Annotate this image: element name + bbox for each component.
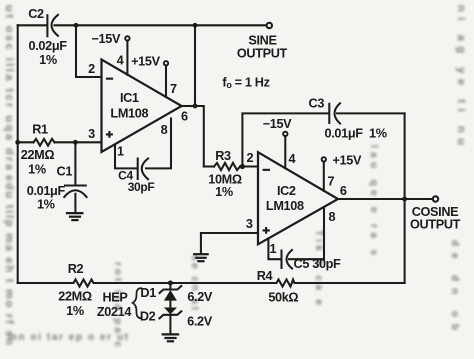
diode D2 zener (160, 308, 182, 334)
wire C4 to pin8 IC1 (146, 118, 171, 168)
svg-text:LM108: LM108 (266, 199, 304, 213)
terminal -15V IC1 (125, 36, 129, 40)
wire pin1 IC2 to C5 (268, 239, 280, 260)
resistor R3 (214, 163, 240, 170)
svg-text:HEP: HEP (102, 291, 128, 305)
wire bottom rail mid (95, 282, 275, 284)
wire R3 to pin2 IC2 (240, 165, 258, 167)
wire C3 to right vertical (337, 112, 405, 114)
svg-text:R1: R1 (32, 123, 48, 137)
svg-text:6.2V: 6.2V (187, 290, 213, 304)
svg-text:1%: 1% (39, 53, 57, 67)
node junction C3 bottom (240, 164, 245, 169)
wire C3 rail (242, 113, 328, 166)
svg-text:1%: 1% (66, 304, 84, 318)
svg-text:50kΩ: 50kΩ (268, 290, 298, 304)
op-amp U2 IC2 triangle (258, 152, 338, 244)
capacitor C5 (282, 250, 293, 268)
svg-text:4: 4 (117, 53, 124, 67)
svg-text:1%: 1% (28, 163, 46, 177)
wire IC2 output (338, 198, 433, 200)
resistor R1 (34, 139, 55, 146)
wire pin1 IC1 to C4 (115, 145, 137, 169)
minus IC1 (106, 78, 113, 80)
wire IC1 output (182, 105, 195, 107)
svg-text:LM108: LM108 (110, 106, 148, 120)
node junction zener top (168, 281, 173, 286)
brace (133, 288, 142, 318)
svg-text:C5 30pF: C5 30pF (294, 257, 342, 271)
terminal -15V IC2 (283, 132, 287, 136)
svg-text:−15V: −15V (92, 32, 121, 46)
wire pin4 IC1 (126, 41, 128, 75)
ground under C1 (67, 213, 82, 220)
capacitor C4 (138, 159, 148, 180)
wire top rail right segment (55, 24, 267, 26)
svg-text:mn oi tar ep o er ut: mn oi tar ep o er ut (8, 332, 129, 343)
svg-text:C1: C1 (57, 165, 73, 179)
terminal +15V IC2 (322, 157, 326, 161)
svg-text:1%: 1% (37, 198, 55, 212)
svg-text:0.02μF: 0.02μF (29, 39, 68, 53)
svg-text:C2: C2 (28, 7, 44, 21)
svg-text:1%: 1% (215, 185, 233, 199)
capacitor C1 (64, 142, 86, 212)
wire top rail left segment (18, 24, 47, 26)
ground pin3 IC2 (194, 254, 207, 261)
svg-text:IC1: IC1 (120, 91, 139, 105)
wire output vertical (195, 25, 204, 166)
svg-text:C3: C3 (309, 97, 325, 111)
svg-text:6: 6 (181, 110, 188, 124)
svg-text:22MΩ: 22MΩ (58, 290, 92, 304)
wire R1 to pin3 (55, 141, 102, 143)
COSINE output terminal (433, 196, 438, 201)
wire pin7 IC2 (323, 162, 325, 191)
node junction C1 top (73, 140, 78, 145)
op-amp U1 IC1 triangle (102, 60, 182, 153)
terminal +15V IC1 (164, 61, 168, 65)
svg-text:R2: R2 (68, 262, 84, 276)
svg-text:OUTPUT: OUTPUT (410, 218, 461, 232)
capacitor C3 (329, 103, 340, 123)
minus IC2 (263, 169, 270, 171)
svg-text:7: 7 (170, 82, 177, 96)
wire C5 to pin8 IC2 (289, 207, 324, 259)
wire to R3 (204, 165, 214, 167)
svg-text:D1: D1 (140, 286, 156, 300)
svg-text:+15V: +15V (333, 154, 362, 168)
svg-text:3: 3 (246, 217, 253, 231)
svg-text:Z0214: Z0214 (97, 305, 132, 319)
svg-text:2: 2 (88, 62, 95, 76)
wire right vertical (404, 113, 406, 283)
wire bottom rail (18, 282, 72, 284)
svg-text:IC2: IC2 (277, 184, 296, 198)
wire pin4 IC2 (284, 136, 286, 168)
wire bottom rail right (295, 282, 405, 284)
node junction IC1 output (193, 104, 198, 109)
svg-text:R4: R4 (257, 269, 273, 283)
svg-text:8: 8 (161, 123, 168, 137)
svg-text:1: 1 (269, 242, 276, 256)
wire R1 left (18, 141, 34, 143)
SINE output terminal (267, 23, 272, 28)
svg-text:R3: R3 (215, 149, 231, 163)
wire pin3 IC2 (201, 233, 258, 252)
resistor R4 (275, 280, 295, 287)
svg-text:6: 6 (340, 184, 347, 198)
plus IC2 (263, 227, 270, 234)
svg-text:D2: D2 (140, 310, 156, 324)
svg-text:−15V: −15V (263, 117, 292, 131)
diode D1 zener (160, 283, 182, 308)
svg-text:SINE: SINE (248, 33, 276, 47)
svg-text:0.01μF: 0.01μF (27, 184, 66, 198)
node junction top-left (74, 23, 79, 28)
node junction top-mid (193, 23, 198, 28)
node junction cosine (402, 197, 407, 202)
svg-text:8: 8 (328, 210, 335, 224)
ground under D2 (163, 334, 178, 341)
svg-text:7: 7 (328, 175, 335, 189)
svg-text:+15V: +15V (131, 55, 160, 69)
svg-text:edu tilp ma eh t mo rf sn: edu tilp ma eh t mo rf sn (3, 175, 15, 345)
wire pin2 drop IC1 (76, 25, 102, 77)
wire left rail (17, 25, 19, 283)
svg-text:OUTPUT: OUTPUT (237, 46, 288, 60)
svg-text:22MΩ: 22MΩ (21, 148, 55, 162)
svg-text:3: 3 (88, 127, 95, 141)
svg-text:30pF: 30pF (128, 180, 155, 194)
node junction R1 left (15, 140, 20, 145)
svg-text:0.01μF 1%: 0.01μF 1% (325, 127, 387, 141)
svg-text:6.2V: 6.2V (187, 315, 213, 329)
plus IC1 (106, 131, 113, 138)
svg-text:2: 2 (246, 151, 253, 165)
svg-text:1: 1 (117, 145, 124, 159)
svg-text:4: 4 (288, 152, 295, 166)
wire pin7 IC1 (165, 65, 167, 96)
capacitor C2 (47, 15, 58, 37)
resistor R2 (72, 280, 96, 287)
